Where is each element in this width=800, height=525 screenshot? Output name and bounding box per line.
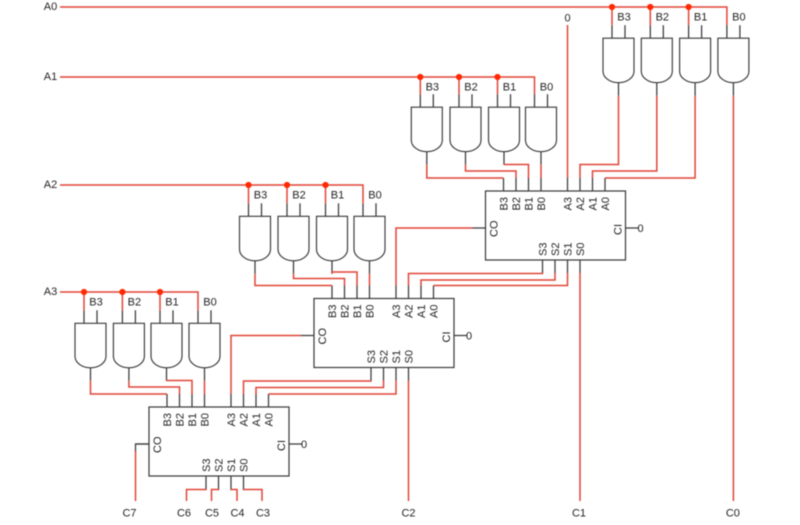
svg-text:A3: A3 <box>226 413 238 426</box>
svg-text:B2: B2 <box>292 190 305 202</box>
svg-text:B0: B0 <box>365 305 377 318</box>
svg-text:CI: CI <box>441 332 453 343</box>
svg-text:S2: S2 <box>214 459 226 472</box>
svg-text:C1: C1 <box>572 508 586 520</box>
svg-text:A2: A2 <box>404 305 416 318</box>
svg-text:C3: C3 <box>256 508 270 520</box>
svg-text:B3: B3 <box>162 413 174 426</box>
svg-text:A1: A1 <box>251 413 263 426</box>
svg-text:B2: B2 <box>175 413 187 426</box>
svg-text:A2: A2 <box>239 413 251 426</box>
svg-text:B2: B2 <box>340 305 352 318</box>
svg-text:A2: A2 <box>575 197 587 210</box>
svg-text:B1: B1 <box>352 305 364 318</box>
svg-text:B1: B1 <box>524 197 536 210</box>
svg-text:CI: CI <box>276 440 288 451</box>
svg-text:B0: B0 <box>200 413 212 426</box>
svg-text:A3: A3 <box>44 286 57 298</box>
svg-text:B2: B2 <box>128 297 141 309</box>
svg-text:B1: B1 <box>187 413 199 426</box>
svg-text:B2: B2 <box>464 82 477 94</box>
svg-text:A0: A0 <box>44 1 57 13</box>
svg-text:CI: CI <box>613 224 625 235</box>
svg-text:CO: CO <box>489 220 501 237</box>
svg-text:S2: S2 <box>550 243 562 256</box>
svg-text:B1: B1 <box>694 12 707 24</box>
svg-text:A3: A3 <box>391 305 403 318</box>
svg-text:S1: S1 <box>391 350 403 363</box>
svg-text:B0: B0 <box>203 297 216 309</box>
svg-text:B0: B0 <box>368 190 381 202</box>
svg-text:C5: C5 <box>205 508 219 520</box>
svg-text:B1: B1 <box>503 82 516 94</box>
svg-text:S1: S1 <box>226 459 238 472</box>
svg-text:B2: B2 <box>656 12 669 24</box>
svg-text:A3: A3 <box>563 197 575 210</box>
svg-text:B0: B0 <box>540 82 553 94</box>
svg-text:0: 0 <box>564 13 570 25</box>
svg-text:B3: B3 <box>499 197 511 210</box>
svg-text:S0: S0 <box>404 350 416 363</box>
svg-text:B1: B1 <box>331 190 344 202</box>
svg-text:B3: B3 <box>617 12 630 24</box>
svg-text:0: 0 <box>637 223 643 235</box>
svg-text:S3: S3 <box>366 350 378 363</box>
svg-text:S0: S0 <box>575 243 587 256</box>
svg-text:S2: S2 <box>379 350 391 363</box>
svg-text:C2: C2 <box>401 508 415 520</box>
svg-text:0: 0 <box>466 331 472 343</box>
svg-text:CO: CO <box>152 436 164 453</box>
svg-text:B3: B3 <box>426 82 439 94</box>
svg-text:C6: C6 <box>177 508 191 520</box>
svg-text:B0: B0 <box>536 197 548 210</box>
svg-text:0: 0 <box>301 439 307 451</box>
svg-text:S0: S0 <box>239 459 251 472</box>
svg-text:B3: B3 <box>254 190 267 202</box>
svg-text:C4: C4 <box>230 508 244 520</box>
svg-text:A1: A1 <box>416 305 428 318</box>
svg-text:S1: S1 <box>563 243 575 256</box>
svg-text:B2: B2 <box>511 197 523 210</box>
svg-text:C0: C0 <box>726 508 740 520</box>
svg-text:CO: CO <box>317 328 329 345</box>
svg-text:B3: B3 <box>89 297 102 309</box>
svg-text:B3: B3 <box>327 305 339 318</box>
svg-text:A0: A0 <box>600 197 612 210</box>
svg-text:A0: A0 <box>429 305 441 318</box>
svg-text:B0: B0 <box>732 12 745 24</box>
svg-text:A0: A0 <box>264 413 276 426</box>
svg-text:A1: A1 <box>588 197 600 210</box>
svg-text:B1: B1 <box>165 297 178 309</box>
svg-text:S3: S3 <box>201 459 213 472</box>
svg-text:C7: C7 <box>122 508 136 520</box>
svg-text:S3: S3 <box>538 243 550 256</box>
svg-text:A2: A2 <box>44 179 57 191</box>
svg-text:A1: A1 <box>44 71 57 83</box>
